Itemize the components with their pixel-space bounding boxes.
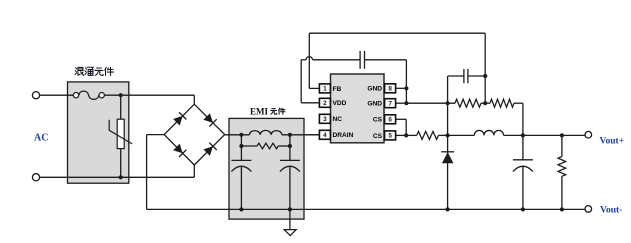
svg-text:2: 2 [323, 100, 327, 107]
svg-text:4: 4 [323, 132, 327, 139]
svg-text:8: 8 [388, 86, 392, 93]
svg-text:EMI: EMI [250, 106, 268, 116]
svg-text:Vout+: Vout+ [600, 137, 625, 147]
svg-text:6: 6 [388, 117, 392, 124]
svg-text:3: 3 [323, 116, 327, 123]
svg-text:Vout-: Vout- [600, 205, 622, 215]
svg-text:1: 1 [323, 86, 327, 93]
svg-text:NC: NC [333, 116, 343, 123]
svg-text:AC: AC [34, 133, 48, 144]
svg-text:VDD: VDD [333, 100, 347, 107]
svg-text:FB: FB [333, 86, 342, 93]
svg-text:GND: GND [367, 101, 382, 108]
svg-text:7: 7 [388, 101, 392, 108]
svg-text:DRAIN: DRAIN [333, 132, 354, 139]
svg-text:CS: CS [373, 117, 383, 124]
svg-text:CS: CS [373, 133, 383, 140]
svg-text:5: 5 [388, 133, 392, 140]
svg-text:GND: GND [367, 86, 382, 93]
